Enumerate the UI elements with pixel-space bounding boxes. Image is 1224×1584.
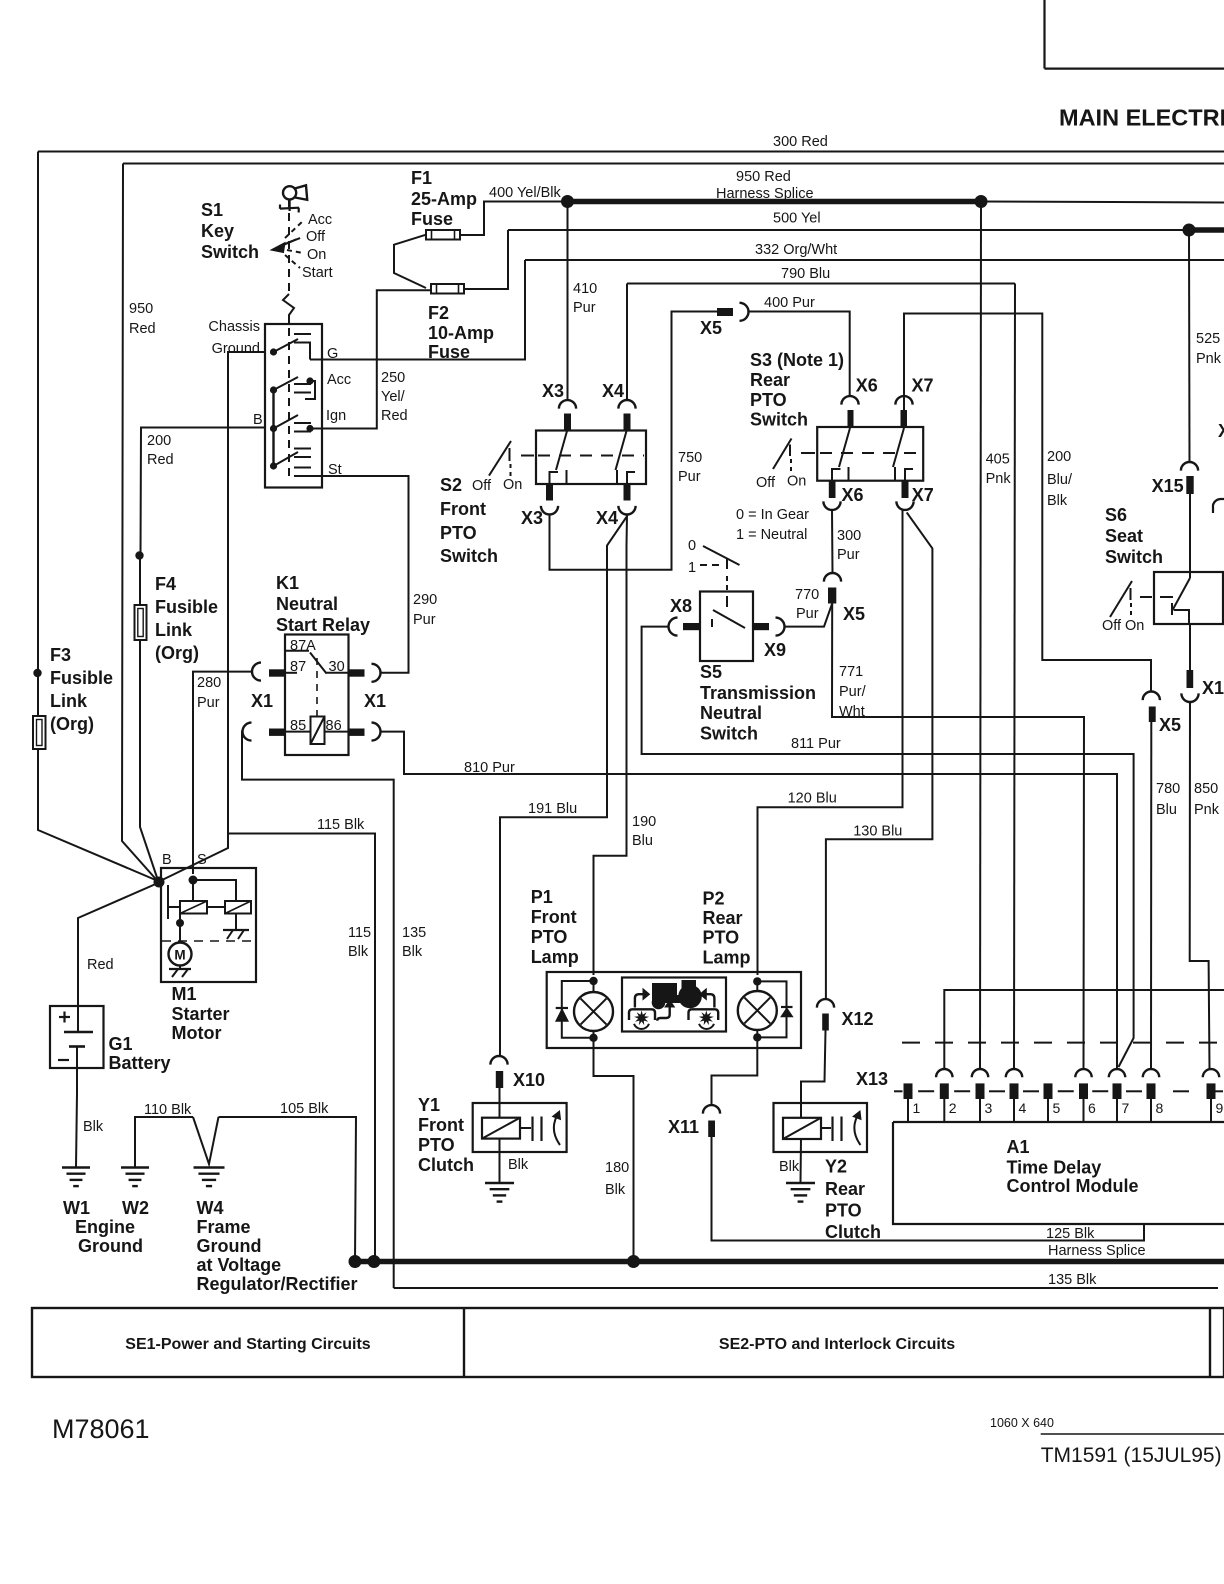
S6 blade and contact [1172,578,1190,611]
Y1 clutch arc arrow [554,1113,560,1145]
wire 770 Pur X9 to X5 [785,604,833,627]
wire G terminal to 332 Org/Wht [310,260,525,360]
clutch Y2 box [774,1103,868,1152]
svg-text:F2: F2 [428,303,449,323]
svg-text:280: 280 [197,675,221,691]
svg-text:Pur: Pur [197,695,220,711]
svg-text:Switch: Switch [700,724,758,744]
svg-text:X1: X1 [364,691,386,711]
svg-text:135: 135 [402,925,426,941]
wire 300 Red left drop [37,152,39,717]
Y1 clutch plates [520,1127,531,1129]
svg-text:On: On [787,474,806,490]
svg-text:Blu: Blu [632,833,653,849]
wire battery to W1 ground [76,1093,77,1167]
wire 850 Pnk X15 to X13 pin 9 [1190,702,1210,1069]
svg-text:TM1591 (15JUL95): TM1591 (15JUL95) [1041,1444,1222,1467]
node B junction at starter [154,877,165,888]
svg-text:125 Blk: 125 Blk [1046,1226,1095,1242]
connector X6 top [841,396,858,405]
svg-text:1060 X 640: 1060 X 640 [990,1416,1054,1430]
svg-text:771: 771 [839,664,863,680]
svg-text:400 Pur: 400 Pur [764,295,815,311]
S1 Ign contact [270,425,277,432]
svg-text:Off: Off [756,475,776,491]
wire 400 Pur X5 to X6 [749,312,850,397]
connector X13 pin 7 [1109,1069,1125,1077]
svg-text:X4: X4 [602,381,624,401]
svg-text:Fuse: Fuse [411,209,453,229]
diode D1 [556,1007,568,1009]
connector X11 [703,1105,720,1114]
svg-text:Ground: Ground [197,1236,262,1256]
svg-text:200: 200 [1047,449,1071,465]
svg-text:Red: Red [147,452,174,468]
connector X13 pin 2 [936,1069,952,1077]
svg-text:Engine: Engine [75,1217,135,1237]
svg-text:1: 1 [913,1100,921,1116]
ground W1 [62,1166,90,1168]
wire 200 Red [141,428,266,556]
svg-text:Front: Front [418,1115,464,1135]
svg-text:Time Delay: Time Delay [1007,1158,1102,1178]
connector X1 left 85: pin and socket [269,729,285,736]
M1 solenoid coil 2 [225,901,251,914]
wire 950 Red top line [123,163,1224,165]
svg-text:X3: X3 [542,381,564,401]
svg-text:Pur: Pur [796,606,819,622]
svg-text:Chassis: Chassis [208,319,260,335]
battery G1 box [50,1006,104,1068]
svg-text:Transmission: Transmission [700,683,816,703]
junction dot on 200 Red wire [135,551,143,559]
svg-text:G1: G1 [109,1034,133,1054]
wire 811 Pur X8 to X13 pin 7 [642,627,1134,1067]
svg-text:Red: Red [129,321,156,337]
motor M circle [169,943,192,966]
key icon of S1 [283,186,296,199]
tractor right arrow [706,994,715,1007]
svg-text:Switch: Switch [1105,547,1163,567]
svg-text:X15: X15 [1152,476,1184,496]
svg-text:Acc: Acc [327,372,351,388]
wire 130 Blu X7 to X12 [826,512,933,999]
svg-text:X6: X6 [842,485,864,505]
diode D2 [781,1006,793,1008]
svg-text:0: 0 [688,538,696,554]
connector X8: socket and pin [669,618,678,636]
S2 right pole blade and contact [616,431,627,470]
connector X13 pin 6 [1075,1069,1091,1077]
ground bus thick wire [352,1259,1224,1265]
svg-text:Lamp: Lamp [531,947,579,967]
wire 120 Blu X7 to P2 lamp [758,510,903,975]
junction dot below coil 1 [176,919,184,927]
svg-text:Blk: Blk [402,944,423,960]
wire V to W4 ground [193,1117,219,1164]
connector X5 at S5: socket and pin [824,573,841,582]
svg-text:Pnk: Pnk [1194,802,1220,818]
connector X3 top [559,400,576,409]
svg-text:PTO: PTO [703,928,740,948]
S1 Acc contact [270,386,277,393]
wire 790 Blu [627,283,1015,285]
S3 dashed line [820,452,921,454]
svg-text:P2: P2 [703,889,725,909]
svg-text:Pur: Pur [413,612,436,628]
svg-text:Blk: Blk [1047,493,1068,509]
wire chassis branch to starter B [159,834,228,882]
svg-text:On: On [1125,618,1144,634]
svg-text:Regulator/Rectifier: Regulator/Rectifier [197,1274,358,1294]
svg-text:115 Blk: 115 Blk [317,817,365,833]
svg-text:405: 405 [986,452,1010,468]
svg-text:Blk: Blk [605,1182,626,1198]
svg-text:Neutral: Neutral [700,703,762,723]
svg-text:Start: Start [302,265,333,281]
M1 internal B bracket [167,885,169,919]
wire 290 Pur St to K1 30 [311,476,409,673]
Y2 clutch arc arrow [854,1113,860,1145]
connector X4 bottom [624,484,631,501]
svg-text:X9: X9 [764,640,786,660]
S1 internal dashed column [288,328,290,482]
svg-text:Off: Off [306,229,326,245]
S2 Off/On lever glyph [489,441,511,476]
svg-text:Switch: Switch [750,410,808,430]
connector X5 key harness: pin and socket [717,308,733,316]
svg-text:4: 4 [1019,1100,1027,1116]
wire F3 to starter B [38,749,158,881]
svg-text:Blk: Blk [779,1159,800,1175]
wire 105 Blk [219,1117,357,1262]
Y2 clutch plates [821,1127,831,1129]
S6 Off/On lever glyph [1110,581,1132,617]
connector X10 [490,1056,507,1065]
svg-text:25-Amp: 25-Amp [411,189,477,209]
svg-text:810 Pur: 810 Pur [464,760,515,776]
tractor center arrow [657,1004,669,1021]
svg-text:950 Red: 950 Red [736,169,791,185]
svg-text:0 = In Gear: 0 = In Gear [736,507,809,523]
svg-text:Pnk: Pnk [1196,351,1222,367]
svg-text:S: S [197,852,207,868]
wire 250 Yel/Red Ign to F2 [310,290,431,428]
lamp P2 junction dots [753,977,761,985]
ground below Y1 [485,1182,514,1184]
connector X13 pin 9 [1203,1069,1219,1077]
tractor icon box [622,978,726,1032]
svg-text:S5: S5 [700,662,722,682]
svg-text:Switch: Switch [440,546,498,566]
footer rule [1041,1433,1224,1435]
svg-text:Pur: Pur [678,469,701,485]
connector X9: pin and socket [753,623,769,630]
svg-text:Blk: Blk [508,1157,529,1173]
svg-text:MAIN ELECTRICAL: MAIN ELECTRICAL [1059,105,1224,131]
junction dot 400 Yel/Blk at harness splice [561,195,574,208]
starter motor M1 box [161,868,256,982]
svg-text:Ground: Ground [78,1236,143,1256]
wire 500 Yel [508,229,1189,231]
connector X6 bottom [829,481,836,498]
K1 blade [310,653,327,674]
wire 300 Pur X6 to X5 [831,510,834,573]
wire Y1 to ground [499,1139,501,1183]
svg-text:X13: X13 [856,1069,888,1089]
svg-text:Front: Front [531,907,577,927]
svg-text:B: B [162,852,172,868]
wire Y2 to ground [800,1139,803,1183]
svg-text:290: 290 [413,592,437,608]
connector X13 pin 5 [1044,1083,1053,1099]
connector X13 pin 1 [904,1083,913,1099]
svg-text:S3 (Note 1): S3 (Note 1) [750,350,844,370]
junction dot 115 Blk at ground bus [368,1255,381,1268]
wire battery + to starter B [78,883,158,1031]
svg-text:332 Org/Wht: 332 Org/Wht [755,242,837,258]
wire 115 Blk chassis ground from S1 [228,352,375,1262]
junction dot 180 Blk at ground bus [627,1255,640,1268]
S3 Off/On lever glyph [773,439,792,470]
svg-text:X6: X6 [856,376,878,396]
svg-text:Clutch: Clutch [418,1155,474,1175]
connector X15 bottom [1189,624,1191,670]
S1 St contact [270,462,277,469]
svg-text:Red: Red [381,408,408,424]
switch S5 box [700,592,753,662]
wire 180 Blk P1 lamp to ground bus [594,1048,634,1262]
svg-text:X10: X10 [513,1070,545,1090]
svg-text:W4: W4 [197,1198,224,1218]
svg-text:X4: X4 [596,508,618,528]
tractor silhouette [678,985,702,1009]
svg-text:W2: W2 [122,1198,149,1218]
svg-text:P1: P1 [531,887,553,907]
K1 terminal 87A stub [285,650,309,652]
svg-text:Rear: Rear [825,1179,865,1199]
ground below Y2 [786,1182,815,1184]
svg-text:X8: X8 [670,596,692,616]
connector X4 top [618,400,635,409]
X13 row dashes [918,1090,934,1092]
S3 left pole blade and contact [839,428,850,467]
svg-text:Off: Off [472,478,492,494]
wire 200 Blu/Blk X7 top to X5 seat [904,314,1151,692]
wire P2 to X11 [712,1048,758,1105]
svg-text:Rear: Rear [750,370,790,390]
ground W4 [194,1166,225,1168]
wire 500 Yel to F2 [464,230,508,289]
diode D2 loop [757,981,786,1037]
dashed boundary above X13 [902,1042,1217,1044]
svg-text:Y1: Y1 [418,1095,440,1115]
svg-text:X5: X5 [700,318,722,338]
svg-text:9: 9 [1216,1100,1224,1116]
svg-text:Key: Key [201,221,234,241]
svg-text:8: 8 [1156,1100,1164,1116]
wire 950 Red harness splice thick bus [568,199,982,205]
fuse F1 [426,230,460,240]
svg-text:250: 250 [381,370,405,386]
svg-text:750: 750 [678,450,702,466]
fusible link F3 [33,716,46,749]
connector X3 bottom [546,484,553,501]
svg-text:Blu: Blu [1156,802,1177,818]
svg-text:115: 115 [348,925,371,941]
svg-text:300: 300 [837,528,861,544]
connector X7 top [895,396,912,405]
svg-text:M1: M1 [172,984,197,1004]
svg-text:400 Yel/Blk: 400 Yel/Blk [489,185,562,201]
svg-text:Fusible: Fusible [50,668,113,688]
wire 125 Blk X11 to A1 ground [712,1137,1145,1241]
svg-text:Wht: Wht [839,704,865,720]
svg-text:5: 5 [1053,1100,1061,1116]
svg-text:F3: F3 [50,645,71,665]
svg-text:Rear: Rear [703,908,743,928]
connector X13 pin 3 [972,1069,988,1077]
connector X7 bottom [902,481,909,498]
svg-text:Clutch: Clutch [825,1222,881,1242]
wire 525 Pnk from 500 Yel to X15 [1188,230,1191,462]
svg-text:770: 770 [795,587,819,603]
S3 right pole blade and contact [893,428,904,467]
lamp P1 [574,992,613,1031]
svg-text:Control Module: Control Module [1007,1176,1139,1196]
svg-text:Red: Red [87,957,114,973]
svg-text:Frame: Frame [197,1217,251,1237]
battery + sign [59,1016,70,1018]
svg-text:A1: A1 [1007,1137,1030,1157]
junction dot 105 Blk at ground bus [349,1255,362,1268]
page corner box (top right) [1043,0,1045,69]
M1 coil2 chassis ground [235,914,237,931]
svg-text:790 Blu: 790 Blu [781,266,830,282]
svg-text:300 Red: 300 Red [773,134,828,150]
PTO gear right [699,1010,714,1025]
wire 771 Pur/Wht X5 to X13 pin 6 [832,604,1084,1070]
svg-text:W1: W1 [63,1198,90,1218]
svg-text:410: 410 [573,281,597,297]
svg-text:200: 200 [147,433,171,449]
svg-text:Pur: Pur [573,300,596,316]
svg-text:X12: X12 [842,1009,874,1029]
svg-text:On: On [503,477,522,493]
connector X1 left 87: pin and socket [269,669,285,676]
svg-text:F1: F1 [411,168,432,188]
S2 left pole blade and contact [556,431,567,470]
wire 130 Blu to X12 [825,998,827,1000]
PTO gear left bracket [629,1009,655,1020]
module A1 box [893,1121,1224,1123]
svg-text:10-Amp: 10-Amp [428,323,494,343]
K1 terminal 30 stub [326,672,349,674]
diode D1 loop [562,981,594,1038]
S1 common chain wire [272,390,274,466]
battery - sign [58,1059,69,1061]
svg-text:780: 780 [1156,781,1180,797]
PTO gear right bracket [689,1009,719,1020]
svg-text:F4: F4 [155,574,176,594]
svg-text:PTO: PTO [418,1135,455,1155]
connector X1 right 30: pin and socket [349,669,365,676]
svg-text:M78061: M78061 [52,1414,150,1444]
wire 135 Blk bottom run [394,1287,1218,1289]
svg-text:PTO: PTO [750,390,787,410]
partial connector arc at page edge [1213,499,1224,513]
wire X13 pin2 tap [944,990,1224,1069]
connector X13 pin 8 [1143,1069,1159,1077]
K1 coil terminal stubs 85/86 [285,731,311,733]
svg-text:Motor: Motor [172,1023,222,1043]
svg-text:Pur/: Pur/ [839,684,867,700]
switch S6 box [1154,572,1223,624]
svg-text:Harness Splice: Harness Splice [1048,1243,1146,1259]
battery + plate [64,1031,93,1034]
svg-text:Blu/: Blu/ [1047,472,1073,488]
key shaft dashed with spring [288,199,290,294]
wire between coils [207,906,225,908]
svg-text:Link: Link [155,620,193,640]
svg-text:7: 7 [1122,1100,1130,1116]
svg-text:Neutral: Neutral [276,594,338,614]
wire X1-85 to 135 Blk [242,732,394,1288]
battery - wire down [76,1047,78,1094]
wire X15 into S6 box [1189,494,1191,578]
svg-text:On: On [307,247,326,263]
junction dot 525 Pnk at 500 Yel [1183,224,1196,237]
svg-text:X11: X11 [668,1117,699,1137]
svg-text:2: 2 [949,1100,957,1116]
svg-text:Link: Link [50,691,88,711]
svg-text:Fusible: Fusible [155,597,218,617]
svg-text:S1: S1 [201,200,223,220]
M1 motor chassis ground [179,966,181,970]
connector X15 top [1181,462,1198,471]
connector X1 right 86: pin and socket [349,729,365,736]
wire 950 Red left drop [122,164,158,882]
Y2 coil [783,1118,821,1139]
wire 191 Blu X4 to X10 [500,517,627,1056]
M1 solenoid coil 1 [180,901,207,914]
connector X12 [817,999,834,1008]
key positions dashed rays with arrow [283,240,296,246]
Y1 coil [499,1088,501,1118]
svg-text:(Org): (Org) [155,643,199,663]
wire 410 Pur splice to X3 [567,202,569,401]
svg-text:X1: X1 [1218,421,1224,441]
relay K1 box [285,635,349,756]
svg-text:Battery: Battery [109,1053,171,1073]
node S junction at starter [189,876,198,885]
svg-text:X15: X15 [1202,678,1224,698]
svg-text:135 Blk: 135 Blk [1048,1272,1097,1288]
S2 dashed line [538,455,644,457]
svg-text:1: 1 [688,560,696,576]
clutch Y1 box [473,1103,567,1152]
svg-text:SE2-PTO and Interlock Circuits: SE2-PTO and Interlock Circuits [719,1336,955,1353]
wire 400 Yel/Blk from F1 to splice [460,202,566,236]
svg-text:PTO: PTO [825,1200,862,1220]
svg-text:(Org): (Org) [50,714,94,734]
switch S3 box [817,427,923,481]
svg-text:at Voltage: at Voltage [197,1255,282,1275]
svg-text:120 Blu: 120 Blu [788,791,837,807]
wire P2 lamp vertical [756,981,758,991]
svg-text:X7: X7 [912,376,934,396]
svg-text:SE1-Power and Starting Circuit: SE1-Power and Starting Circuits [125,1336,370,1353]
